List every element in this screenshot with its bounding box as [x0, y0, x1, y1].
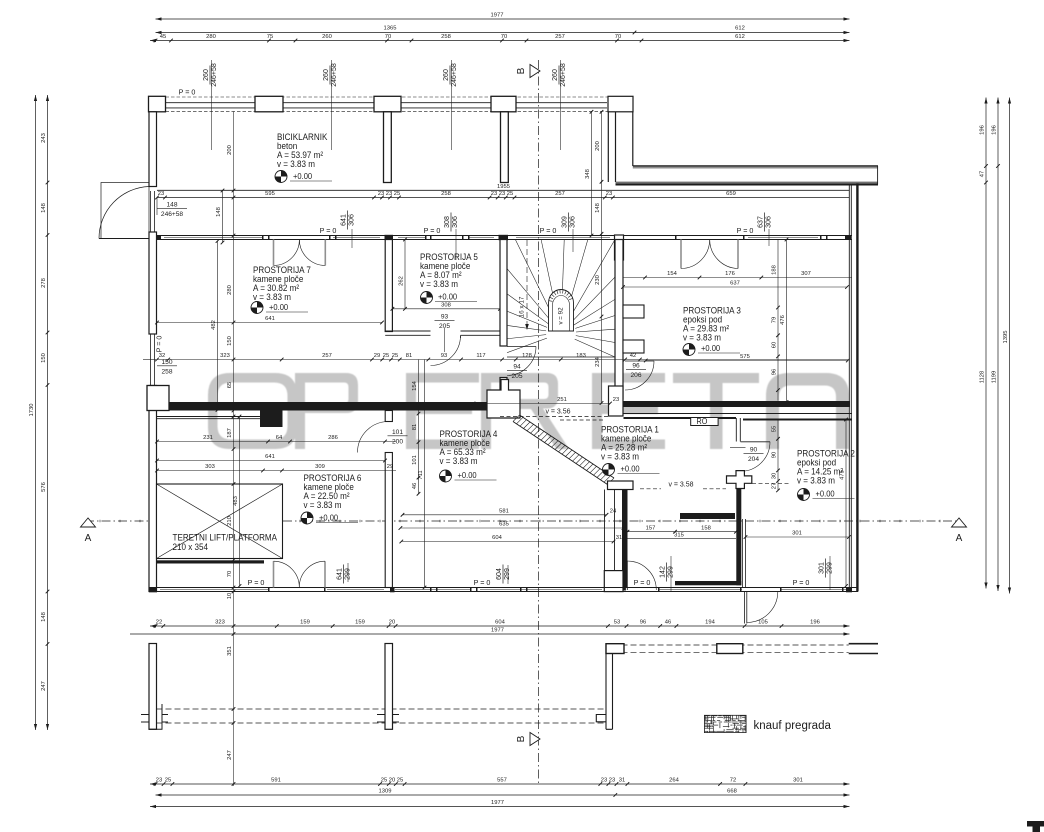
dim 575 horizontal: [646, 360, 848, 362]
lower wall left column: [149, 644, 157, 730]
west wall lower: [149, 386, 157, 592]
svg-text:70: 70: [385, 34, 391, 40]
svg-text:247: 247: [227, 750, 233, 760]
svg-text:1977: 1977: [491, 13, 504, 19]
svg-text:150: 150: [227, 336, 233, 346]
door 96/206 to P3: [625, 360, 654, 362]
svg-text:301: 301: [793, 777, 803, 783]
entrance vestibule: [101, 183, 149, 239]
svg-text:v = 3.56: v = 3.56: [545, 409, 570, 416]
south wall band: [149, 587, 858, 589]
dim 482 vertical: [217, 241, 219, 410]
svg-text:27: 27: [771, 483, 777, 489]
dim 251: [474, 403, 611, 405]
svg-text:P = 0: P = 0: [248, 578, 265, 587]
P1 interior dims 581/635/604: [403, 514, 607, 516]
svg-text:P = 0: P = 0: [320, 226, 337, 235]
svg-text:258: 258: [161, 369, 172, 376]
cross column P1/P2: [727, 471, 752, 489]
dimension chain y197 segments: [157, 197, 849, 199]
svg-text:604: 604: [495, 620, 505, 626]
stairwell left wall: [500, 240, 507, 347]
lower floor right band: [849, 643, 878, 645]
svg-text:10: 10: [227, 593, 233, 599]
svg-text:315: 315: [674, 532, 684, 538]
svg-text:154: 154: [412, 380, 418, 390]
escalator ramp diagonal: [513, 422, 608, 485]
svg-text:307: 307: [801, 271, 811, 277]
svg-text:262: 262: [398, 276, 404, 286]
svg-text:157: 157: [646, 525, 656, 531]
double door P7 entrance: [273, 240, 275, 266]
svg-text:+0.00: +0.00: [269, 303, 289, 313]
P5-P7 south wall with door 93/205: [385, 330, 430, 332]
svg-text:101: 101: [392, 429, 403, 436]
svg-text:1395: 1395: [1003, 331, 1009, 344]
svg-text:29: 29: [387, 464, 393, 470]
NE corner wall: [608, 96, 633, 112]
svg-text:32: 32: [159, 353, 165, 359]
svg-text:159: 159: [355, 620, 365, 626]
svg-text:188: 188: [771, 265, 777, 275]
wall block stair top-right: [615, 235, 624, 260]
dim 483 vertical: [239, 417, 241, 587]
svg-text:72: 72: [730, 777, 736, 783]
svg-text:183: 183: [576, 353, 586, 359]
svg-text:148: 148: [166, 202, 177, 209]
svg-text:46: 46: [412, 483, 418, 489]
P6 east wall lower: [385, 453, 392, 588]
svg-text:280: 280: [206, 34, 216, 40]
RO box: [691, 418, 718, 426]
svg-text:309: 309: [315, 464, 325, 470]
svg-text:23: 23: [601, 777, 607, 783]
svg-text:P = 0: P = 0: [474, 578, 491, 587]
P6 dims 641b: [157, 460, 385, 462]
svg-text:20: 20: [389, 620, 395, 626]
svg-text:P = 0: P = 0: [179, 88, 196, 97]
svg-text:101: 101: [412, 455, 418, 465]
svg-text:1309: 1309: [379, 788, 392, 794]
svg-text:65: 65: [227, 382, 233, 388]
svg-text:v = 3.83 m: v = 3.83 m: [253, 292, 291, 303]
svg-text:25: 25: [397, 777, 403, 783]
dim 711 vertical: [424, 360, 426, 588]
svg-text:641: 641: [265, 454, 275, 460]
svg-text:20: 20: [389, 777, 395, 783]
partition mullion ticks: [262, 235, 264, 240]
svg-text:204: 204: [748, 456, 759, 463]
south band glazing: [160, 589, 268, 591]
svg-text:81: 81: [406, 353, 412, 359]
svg-text:246+58: 246+58: [331, 63, 338, 87]
svg-text:23: 23: [609, 777, 615, 783]
svg-text:25: 25: [394, 191, 400, 197]
wall block P5 left junction: [385, 235, 394, 240]
svg-text:23: 23: [386, 191, 392, 197]
svg-text:1128: 1128: [979, 371, 985, 383]
dim chain x222 148: [222, 191, 224, 243]
svg-text:93: 93: [441, 314, 449, 321]
svg-text:260: 260: [443, 69, 450, 81]
NE wing right connector: [877, 166, 879, 184]
dimension chain top 1365 / 612: [156, 32, 850, 34]
svg-text:246+58: 246+58: [161, 211, 184, 218]
column C4 T-shape: [491, 96, 516, 112]
svg-text:260: 260: [203, 69, 210, 81]
svg-text:301: 301: [819, 562, 826, 574]
svg-text:knauf pregrada: knauf pregrada: [754, 720, 832, 732]
svg-text:P = 0: P = 0: [424, 226, 441, 235]
svg-text:v = 3.83 m: v = 3.83 m: [277, 159, 315, 170]
stair flight fan: [507, 240, 615, 357]
svg-text:306: 306: [766, 216, 773, 228]
door 94/205 in stair wall: [507, 346, 536, 348]
svg-text:v = 3.83 m: v = 3.83 m: [797, 475, 835, 486]
lower wall middle column: [385, 644, 393, 730]
dimension chain left outer 1730: [35, 95, 37, 730]
svg-text:482: 482: [211, 320, 217, 330]
svg-text:25: 25: [165, 777, 171, 783]
svg-text:635: 635: [499, 522, 509, 528]
P3 dim 476 vertical: [786, 240, 788, 403]
svg-text:476: 476: [780, 315, 786, 325]
ramp T-head wall: [608, 481, 634, 490]
svg-text:641: 641: [265, 316, 275, 322]
door P2 south outward: [744, 592, 746, 624]
svg-text:23: 23: [156, 777, 162, 783]
svg-text:257: 257: [555, 191, 565, 197]
svg-text:187: 187: [227, 428, 233, 438]
lower floor dashed lines: [157, 708, 606, 710]
svg-text:+0.00: +0.00: [438, 292, 458, 302]
svg-text:264: 264: [669, 777, 679, 783]
svg-text:348: 348: [585, 169, 591, 179]
door P1 south: [626, 561, 628, 590]
svg-text:25: 25: [507, 191, 513, 197]
svg-text:591: 591: [271, 777, 281, 783]
svg-text:P = 0: P = 0: [737, 226, 754, 235]
lift lobby north wall: [157, 416, 260, 418]
svg-text:24: 24: [610, 508, 617, 514]
svg-text:711: 711: [418, 470, 424, 479]
svg-text:+0.00: +0.00: [621, 464, 641, 474]
NE wing lower edge wall: [616, 181, 879, 183]
wall block stairwell left junction: [499, 235, 509, 240]
stair wall notch 2: [623, 340, 644, 353]
svg-text:A: A: [85, 533, 92, 544]
svg-text:301: 301: [792, 531, 802, 537]
south wall of P3 thick: [609, 401, 851, 407]
lower floor band dashed: [613, 644, 849, 646]
lift south bar: [157, 560, 264, 563]
svg-text:v = 3.83 m: v = 3.83 m: [601, 451, 639, 462]
svg-text:B: B: [516, 67, 527, 74]
svg-text:323: 323: [215, 620, 225, 626]
section marker B bottom: [530, 733, 540, 746]
svg-text:604: 604: [492, 535, 502, 541]
svg-text:23: 23: [491, 191, 497, 197]
P1 north wall: [624, 413, 853, 415]
svg-text:16 x 17: 16 x 17: [519, 296, 526, 317]
svg-text:246+58: 246+58: [211, 63, 218, 87]
svg-text:A: A: [956, 533, 963, 544]
svg-text:23: 23: [158, 191, 164, 197]
dimension chain left segments: [47, 95, 49, 730]
long dim chain x233.5: [233, 112, 235, 786]
svg-text:612: 612: [735, 26, 745, 32]
svg-text:81: 81: [412, 424, 418, 430]
door 90/204: [741, 441, 771, 443]
svg-text:P = 0: P = 0: [540, 226, 557, 235]
svg-text:196: 196: [810, 620, 820, 626]
svg-text:117: 117: [476, 353, 485, 359]
svg-text:286: 286: [328, 435, 338, 441]
svg-text:v = 3.58: v = 3.58: [668, 482, 693, 489]
P5 west wall: [385, 240, 392, 332]
biciklarnik south wall line 1955: [157, 189, 849, 191]
svg-text:200: 200: [392, 439, 403, 446]
svg-text:148: 148: [41, 203, 47, 213]
svg-text:257: 257: [555, 34, 565, 40]
svg-text:+0.00: +0.00: [816, 489, 836, 499]
svg-text:90: 90: [750, 447, 758, 454]
svg-text:483: 483: [233, 496, 239, 506]
main interior chain y359.5: [157, 359, 848, 361]
NE wing vertical wall: [608, 112, 633, 182]
svg-text:v = 3.83 m: v = 3.83 m: [683, 332, 721, 343]
P3 dim 637: [623, 286, 847, 288]
svg-text:306: 306: [452, 216, 459, 228]
svg-text:96: 96: [632, 363, 640, 370]
west wall mid: [149, 232, 157, 334]
svg-text:581: 581: [499, 508, 509, 514]
svg-text:v = 92: v = 92: [558, 307, 565, 325]
svg-text:70: 70: [227, 571, 233, 577]
svg-text:612: 612: [735, 34, 745, 40]
svg-text:637: 637: [758, 216, 765, 228]
partition wall band: [157, 235, 852, 237]
svg-text:196: 196: [991, 125, 997, 135]
P1 niche dims 157/158/315/301: [628, 531, 737, 533]
svg-text:258: 258: [441, 34, 451, 40]
svg-text:575: 575: [740, 354, 750, 360]
dimension chain bottom segments: [150, 783, 850, 785]
dim 308 in P5: [392, 308, 500, 310]
svg-text:158: 158: [701, 525, 711, 531]
svg-text:55: 55: [771, 426, 777, 432]
double door P3 entrance: [680, 240, 682, 269]
svg-text:299: 299: [504, 568, 511, 580]
svg-text:148: 148: [216, 207, 222, 217]
svg-text:B: B: [516, 735, 527, 742]
svg-text:194: 194: [705, 620, 715, 626]
north wall glazing lines: [165, 102, 607, 104]
svg-text:210: 210: [227, 516, 233, 526]
svg-text:595: 595: [265, 191, 275, 197]
stair walk line 16x17: [526, 240, 528, 326]
svg-text:303: 303: [205, 464, 215, 470]
svg-text:23: 23: [499, 191, 505, 197]
svg-text:+0.00: +0.00: [458, 471, 478, 481]
svg-text:308: 308: [444, 216, 451, 228]
svg-text:306: 306: [349, 214, 356, 226]
svg-text:258: 258: [441, 191, 451, 197]
lower band left block: [606, 644, 624, 654]
south facade line y634: [130, 633, 850, 635]
svg-text:1977: 1977: [491, 800, 504, 806]
svg-text:+0.00: +0.00: [319, 513, 339, 523]
svg-text:79: 79: [771, 317, 777, 323]
dimension chain top overall 1977: [156, 18, 850, 20]
P1 west wall foot: [604, 571, 623, 592]
svg-text:246+58: 246+58: [560, 63, 567, 87]
dimension chain right 196/47/1128: [985, 98, 987, 589]
section marker B top: [530, 65, 540, 78]
P6 east wall upper: [385, 411, 392, 422]
svg-text:641: 641: [341, 214, 348, 226]
svg-text:30: 30: [771, 473, 777, 479]
svg-text:257: 257: [322, 353, 332, 359]
svg-text:308: 308: [441, 302, 451, 308]
P6 dims 231/64/286: [157, 441, 396, 443]
column C1 top-left corner: [149, 96, 166, 112]
svg-text:176: 176: [725, 271, 735, 277]
svg-text:243: 243: [41, 133, 47, 143]
svg-text:23: 23: [606, 191, 612, 197]
door 101/200: [358, 422, 389, 453]
svg-text:v = 3.83 m: v = 3.83 m: [304, 500, 342, 511]
lower wall right column: [596, 644, 612, 730]
svg-text:260: 260: [323, 69, 330, 81]
svg-text:260: 260: [322, 34, 332, 40]
svg-text:45: 45: [160, 34, 166, 40]
stairwell lower-left wall piece: [500, 378, 507, 391]
svg-text:604: 604: [496, 568, 503, 580]
svg-text:668: 668: [727, 788, 737, 794]
south band mullion ticks: [268, 587, 270, 592]
svg-text:576: 576: [41, 482, 47, 492]
north wall dashed edges: [149, 96, 614, 98]
wall notch down: [260, 411, 283, 428]
south facade chain y626: [150, 625, 850, 627]
svg-text:1955: 1955: [497, 184, 510, 190]
P3 dim chain vertical x778: [777, 240, 779, 401]
knauf pregrada hatch swatch: [704, 715, 746, 732]
dim 641 horizontal: [157, 322, 382, 324]
svg-text:148: 148: [595, 203, 601, 213]
double door south P6: [273, 561, 275, 587]
svg-text:25: 25: [392, 353, 398, 359]
svg-text:1977: 1977: [491, 628, 504, 634]
section line B-B vertical: [538, 60, 540, 786]
dimension chain top segments: [150, 40, 850, 42]
svg-text:75: 75: [267, 34, 273, 40]
svg-text:70: 70: [501, 34, 507, 40]
P1 niche bottom wall: [675, 581, 741, 585]
svg-text:96: 96: [771, 369, 777, 375]
svg-text:P = 0: P = 0: [634, 578, 651, 587]
svg-text:23: 23: [613, 397, 619, 403]
svg-text:+0.00: +0.00: [701, 344, 721, 354]
svg-text:306: 306: [570, 216, 577, 228]
svg-text:1199: 1199: [991, 371, 997, 383]
svg-text:105: 105: [758, 620, 768, 626]
P6 dims 303/309: [157, 470, 396, 472]
section line A-A horizontal: [85, 520, 960, 522]
P2 dim chain x778 lower: [777, 420, 779, 491]
central thick wall: [169, 402, 487, 411]
P2 dim 475: [845, 420, 847, 587]
svg-text:v = 3.83 m: v = 3.83 m: [420, 279, 458, 290]
dim chain x601 upper: [591, 112, 593, 236]
svg-text:196: 196: [979, 125, 985, 135]
svg-text:RO: RO: [697, 417, 708, 427]
stair wall notch 1: [623, 305, 644, 318]
section marker A right: [952, 518, 967, 527]
column C2: [255, 96, 283, 112]
wall west corner block: [147, 386, 169, 411]
svg-text:v = 3.83 m: v = 3.83 m: [440, 456, 478, 467]
partition glazing centers: [164, 237, 262, 239]
svg-text:278: 278: [41, 278, 47, 288]
door 93/205 swing: [431, 336, 461, 366]
svg-text:246+58: 246+58: [451, 63, 458, 87]
NE wing top wall: [633, 165, 878, 167]
stair landing edge: [507, 356, 615, 358]
west wall upper: [149, 112, 157, 187]
svg-text:234: 234: [595, 356, 601, 366]
svg-text:641: 641: [337, 568, 344, 580]
svg-text:53: 53: [614, 620, 620, 626]
svg-text:46: 46: [665, 620, 671, 626]
svg-text:351: 351: [227, 646, 233, 656]
svg-text:206: 206: [630, 372, 641, 379]
svg-text:96: 96: [640, 620, 646, 626]
top leader lines 260/246+58: [211, 60, 213, 150]
svg-text:323: 323: [220, 353, 230, 359]
svg-text:P = 0: P = 0: [793, 578, 810, 587]
svg-text:93: 93: [441, 353, 447, 359]
P3 corridor dim 154/176/307: [623, 277, 853, 279]
stair newel arch: [549, 290, 574, 332]
entrance window: [150, 191, 152, 232]
svg-text:142: 142: [660, 566, 667, 578]
svg-text:557: 557: [497, 777, 507, 783]
svg-text:637: 637: [730, 281, 740, 287]
entrance door leaf and swing: [99, 238, 149, 240]
svg-text:25: 25: [381, 777, 387, 783]
svg-text:47: 47: [979, 171, 985, 177]
page corner logo glyph: [1027, 821, 1044, 832]
svg-text:31: 31: [619, 777, 625, 783]
svg-text:231: 231: [203, 435, 213, 441]
dim chain x418 left of P4: [418, 360, 420, 494]
svg-text:230: 230: [595, 275, 601, 285]
P1 inner niche wall: [680, 513, 735, 519]
svg-text:159: 159: [300, 620, 310, 626]
stair small room block 94: [487, 380, 520, 419]
lower floor band block: [717, 644, 743, 654]
column C3 T-shape: [374, 96, 401, 112]
svg-text:200: 200: [595, 141, 601, 151]
svg-text:29: 29: [374, 353, 380, 359]
svg-text:200: 200: [227, 145, 233, 155]
dashed v=3.58 left: [560, 419, 604, 421]
svg-text:+0.00: +0.00: [293, 172, 313, 182]
dimension chain bottom overall 1977: [150, 806, 850, 808]
P1 east wall lower: [736, 489, 741, 586]
